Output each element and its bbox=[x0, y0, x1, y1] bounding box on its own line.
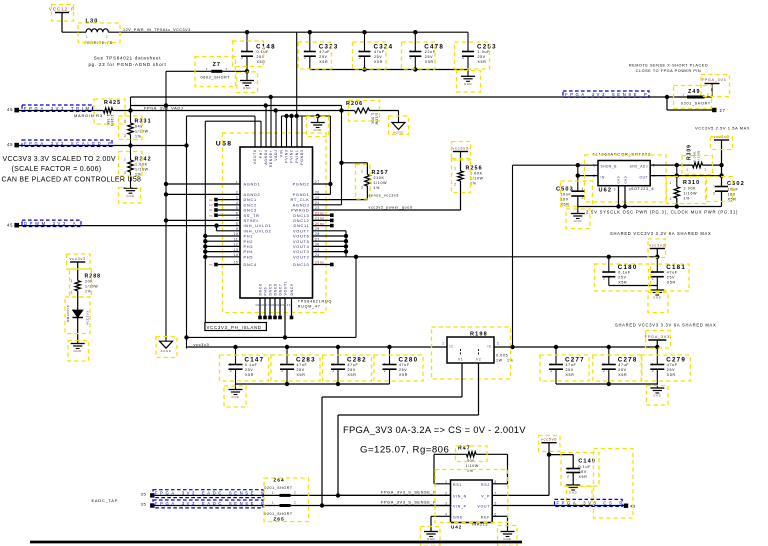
svg-text:GND: GND bbox=[653, 296, 662, 300]
svg-text:0.1uF: 0.1uF bbox=[257, 50, 270, 54]
svg-text:27: 27 bbox=[720, 108, 726, 113]
svg-text:2: 2 bbox=[71, 291, 73, 295]
svg-text:1: 1 bbox=[550, 362, 552, 366]
svg-text:0.1uF: 0.1uF bbox=[579, 465, 592, 469]
svg-text:25V: 25V bbox=[618, 368, 626, 372]
svg-text:GND: GND bbox=[126, 194, 135, 198]
svg-text:2: 2 bbox=[106, 34, 108, 38]
svg-text:CAN BE PLACED AT CONTROLLER U5: CAN BE PLACED AT CONTROLLER U58 bbox=[2, 177, 142, 184]
svg-text:22uF: 22uF bbox=[425, 50, 436, 54]
svg-text:PGND2: PGND2 bbox=[293, 182, 310, 187]
svg-text:RS1: RS1 bbox=[453, 483, 462, 487]
svg-text:47uF: 47uF bbox=[399, 363, 410, 367]
svg-text:OUT: OUT bbox=[640, 176, 648, 180]
svg-text:X5R: X5R bbox=[579, 475, 588, 479]
svg-text:VCC3V3_PH_ISLAND: VCC3V3_PH_ISLAND bbox=[207, 325, 262, 330]
svg-text:X5R: X5R bbox=[667, 373, 676, 377]
svg-text:25V: 25V bbox=[319, 55, 327, 59]
svg-text:1: 1 bbox=[713, 185, 715, 189]
svg-text:0201_SHORT: 0201_SHORT bbox=[264, 512, 292, 516]
svg-text:2: 2 bbox=[230, 369, 232, 373]
svg-text:nc: nc bbox=[209, 203, 213, 207]
svg-text:FPGA_3V3_S_SENSE_N: FPGA_3V3_S_SENSE_N bbox=[381, 490, 437, 495]
svg-text:VCC3V3: VCC3V3 bbox=[86, 311, 90, 325]
svg-text:1: 1 bbox=[332, 362, 334, 366]
svg-text:RUQM_47: RUQM_47 bbox=[298, 305, 321, 309]
svg-text:FPGA_3V3_TRIM: FPGA_3V3_TRIM bbox=[24, 106, 92, 111]
svg-text:2: 2 bbox=[226, 67, 228, 71]
svg-text:1: 1 bbox=[206, 67, 208, 71]
svg-text:47uF: 47uF bbox=[667, 363, 678, 367]
svg-text:3: 3 bbox=[614, 188, 616, 192]
svg-text:VCC3V3 3.3V SCALED TO 2.00V: VCC3V3 3.3V SCALED TO 2.00V bbox=[3, 156, 116, 163]
svg-text:VCC12_P: VCC12_P bbox=[49, 6, 75, 11]
svg-text:2: 2 bbox=[304, 56, 306, 60]
svg-text:2: 2 bbox=[567, 474, 569, 478]
svg-text:0201_SHORT: 0201_SHORT bbox=[264, 486, 292, 490]
svg-text:3: 3 bbox=[445, 502, 447, 506]
svg-text:2.5V SYSCLK OSC PWR (PG.3), CL: 2.5V SYSCLK OSC PWR (PG.3), CLOCK MUX PW… bbox=[586, 209, 738, 214]
svg-text:25V: 25V bbox=[245, 368, 253, 372]
svg-text:2: 2 bbox=[707, 93, 709, 97]
svg-text:U58: U58 bbox=[216, 141, 233, 148]
svg-text:VOUT: VOUT bbox=[477, 505, 490, 509]
svg-text:GND: GND bbox=[74, 349, 83, 353]
svg-text:2.00K: 2.00K bbox=[684, 187, 697, 191]
svg-text:25V: 25V bbox=[297, 368, 305, 372]
svg-text:X5R: X5R bbox=[566, 373, 575, 377]
svg-text:GND: GND bbox=[624, 176, 628, 184]
svg-text:1/16W: 1/16W bbox=[374, 113, 378, 125]
svg-text:SHDN_B: SHDN_B bbox=[601, 164, 617, 168]
svg-text:35: 35 bbox=[141, 501, 147, 506]
svg-text:U62: U62 bbox=[599, 188, 613, 194]
svg-text:X5R: X5R bbox=[348, 373, 357, 377]
svg-text:47uF: 47uF bbox=[319, 50, 330, 54]
svg-text:GND: GND bbox=[231, 395, 240, 399]
svg-text:2: 2 bbox=[294, 491, 296, 495]
svg-text:VCC2V5 2.5V 1.5A MAX: VCC2V5 2.5V 1.5A MAX bbox=[695, 126, 750, 131]
svg-text:1: 1 bbox=[124, 158, 126, 162]
svg-text:SHARED VCC3V3 3.3V 6A SHARED M: SHARED VCC3V3 3.3V 6A SHARED MAX bbox=[615, 323, 717, 328]
svg-text:16V: 16V bbox=[728, 192, 736, 196]
svg-text:1: 1 bbox=[567, 467, 569, 471]
svg-text:GND: GND bbox=[464, 82, 473, 86]
svg-text:PVIN3: PVIN3 bbox=[285, 150, 289, 163]
svg-text:VIN_N: VIN_N bbox=[453, 494, 467, 498]
svg-text:nc: nc bbox=[209, 208, 213, 212]
svg-text:21: 21 bbox=[287, 303, 291, 307]
svg-text:25V: 25V bbox=[348, 368, 356, 372]
svg-text:X5R: X5R bbox=[618, 373, 627, 377]
svg-text:19: 19 bbox=[275, 303, 279, 307]
svg-text:R198: R198 bbox=[470, 332, 488, 338]
svg-text:25V: 25V bbox=[478, 55, 486, 59]
svg-text:2: 2 bbox=[332, 369, 334, 373]
svg-text:1: 1 bbox=[359, 49, 361, 53]
svg-text:2: 2 bbox=[410, 56, 412, 60]
svg-text:1: 1 bbox=[272, 501, 274, 505]
svg-text:2: 2 bbox=[582, 196, 584, 200]
svg-text:GND: GND bbox=[503, 537, 512, 541]
svg-text:SHARED VCC3V3 3.3V 6A SHARED M: SHARED VCC3V3 3.3V 6A SHARED MAX bbox=[610, 231, 712, 236]
svg-text:I1: I1 bbox=[450, 345, 454, 349]
svg-text:V2: V2 bbox=[476, 358, 481, 362]
svg-text:1.00K: 1.00K bbox=[135, 162, 148, 166]
svg-text:0.005: 0.005 bbox=[496, 354, 508, 358]
svg-text:1/10W: 1/10W bbox=[470, 177, 484, 181]
svg-text:47uF: 47uF bbox=[297, 363, 308, 367]
svg-text:1: 1 bbox=[410, 49, 412, 53]
svg-text:1: 1 bbox=[670, 181, 672, 185]
svg-text:MARGIN R3: MARGIN R3 bbox=[74, 113, 103, 118]
svg-text:12V_PWR_IN_TPS84x_VCC3V3: 12V_PWR_IN_TPS84x_VCC3V3 bbox=[123, 28, 191, 32]
svg-text:X5R: X5R bbox=[618, 280, 627, 284]
svg-text:R331: R331 bbox=[135, 118, 152, 124]
svg-text:nc: nc bbox=[209, 198, 213, 202]
svg-text:vcc3v3: vcc3v3 bbox=[452, 145, 468, 150]
svg-text:1%: 1% bbox=[85, 290, 91, 294]
svg-text:VOUT1: VOUT1 bbox=[283, 281, 287, 296]
svg-text:1%: 1% bbox=[684, 197, 691, 201]
svg-text:2: 2 bbox=[454, 183, 456, 187]
svg-text:pg. 23 for PGND-AGND short: pg. 23 for PGND-AGND short bbox=[88, 62, 166, 67]
svg-text:2: 2 bbox=[361, 186, 363, 190]
svg-text:2: 2 bbox=[550, 369, 552, 373]
svg-text:1: 1 bbox=[652, 270, 654, 274]
svg-text:2: 2 bbox=[359, 56, 361, 60]
svg-text:2: 2 bbox=[281, 369, 283, 373]
svg-text:1.00K: 1.00K bbox=[470, 172, 483, 176]
svg-text:FPGA_3V3_S_SENSE_P: FPGA_3V3_S_SENSE_P bbox=[381, 500, 436, 505]
svg-text:1: 1 bbox=[272, 491, 274, 495]
svg-text:V_P: V_P bbox=[481, 494, 490, 498]
svg-text:X5R: X5R bbox=[478, 60, 487, 64]
svg-text:1/16W: 1/16W bbox=[110, 115, 114, 127]
svg-text:2: 2 bbox=[603, 369, 605, 373]
svg-text:FPGA_3V3_SENSE_P: FPGA_3V3_SENSE_P bbox=[565, 92, 649, 97]
svg-text:1: 1 bbox=[682, 93, 684, 97]
svg-text:sense_vcc3v3: sense_vcc3v3 bbox=[369, 194, 400, 198]
svg-text:DNC9: DNC9 bbox=[290, 283, 294, 295]
svg-text:Z7: Z7 bbox=[213, 62, 221, 68]
svg-text:SNS_ADJ: SNS_ADJ bbox=[630, 164, 648, 168]
svg-text:47uF: 47uF bbox=[667, 270, 678, 274]
svg-text:X5R: X5R bbox=[399, 373, 408, 377]
svg-text:1%: 1% bbox=[135, 135, 142, 139]
svg-text:2: 2 bbox=[497, 342, 499, 346]
svg-text:DNC6: DNC6 bbox=[273, 283, 277, 295]
svg-text:X5R: X5R bbox=[245, 373, 254, 377]
svg-text:nc: nc bbox=[209, 213, 213, 217]
svg-text:GND: GND bbox=[653, 394, 662, 398]
svg-text:2: 2 bbox=[384, 369, 386, 373]
svg-text:1W: 1W bbox=[496, 359, 503, 363]
svg-text:0201_SHORT: 0201_SHORT bbox=[681, 102, 711, 106]
svg-text:X5R: X5R bbox=[561, 202, 570, 206]
svg-text:1/16W: 1/16W bbox=[684, 192, 698, 196]
svg-text:20: 20 bbox=[280, 303, 284, 307]
svg-text:2: 2 bbox=[462, 56, 464, 60]
svg-text:1: 1 bbox=[686, 168, 688, 172]
svg-text:1.00K: 1.00K bbox=[370, 113, 374, 125]
svg-text:1: 1 bbox=[71, 279, 73, 283]
svg-text:45: 45 bbox=[7, 107, 13, 112]
svg-text:vcc3v3: vcc3v3 bbox=[194, 342, 210, 347]
svg-text:2: 2 bbox=[603, 277, 605, 281]
svg-text:(SCALE FACTOR = 0.606): (SCALE FACTOR = 0.606) bbox=[12, 166, 102, 173]
svg-text:2: 2 bbox=[670, 197, 672, 201]
svg-text:PH5: PH5 bbox=[244, 254, 254, 259]
svg-text:GND: GND bbox=[617, 176, 621, 184]
svg-text:1: 1 bbox=[281, 362, 283, 366]
svg-text:IN: IN bbox=[601, 176, 605, 180]
svg-text:47uF: 47uF bbox=[618, 363, 629, 367]
svg-text:See TPS84021 datasheet: See TPS84021 datasheet bbox=[94, 56, 162, 61]
svg-text:47uF: 47uF bbox=[374, 50, 385, 54]
svg-text:V1: V1 bbox=[458, 358, 463, 362]
svg-text:MM3Z6V8: MM3Z6V8 bbox=[66, 305, 70, 322]
svg-text:2: 2 bbox=[705, 168, 707, 172]
svg-text:PVIN1: PVIN1 bbox=[295, 150, 299, 163]
svg-text:2: 2 bbox=[445, 492, 447, 496]
svg-text:1: 1 bbox=[361, 170, 363, 174]
svg-text:PH7: PH7 bbox=[259, 150, 263, 159]
svg-text:1: 1 bbox=[124, 120, 126, 124]
svg-text:16: 16 bbox=[260, 303, 264, 307]
svg-text:1: 1 bbox=[582, 187, 584, 191]
svg-text:2: 2 bbox=[124, 171, 126, 175]
svg-text:35: 35 bbox=[141, 491, 147, 496]
svg-text:18: 18 bbox=[270, 303, 274, 307]
svg-text:2: 2 bbox=[241, 56, 243, 60]
svg-text:DNC4: DNC4 bbox=[244, 262, 258, 267]
svg-text:X5R: X5R bbox=[425, 60, 434, 64]
svg-text:2: 2 bbox=[124, 134, 126, 138]
svg-text:1: 1 bbox=[86, 34, 88, 38]
svg-text:EADC_TAP: EADC_TAP bbox=[92, 498, 119, 503]
svg-text:10uF: 10uF bbox=[561, 192, 572, 196]
svg-text:R425: R425 bbox=[104, 100, 121, 106]
svg-text:AGND1: AGND1 bbox=[244, 182, 261, 187]
svg-text:25V: 25V bbox=[667, 368, 675, 372]
svg-text:1: 1 bbox=[593, 164, 595, 168]
svg-text:RS2: RS2 bbox=[481, 483, 490, 487]
svg-text:GND: GND bbox=[569, 491, 578, 495]
svg-text:1: 1 bbox=[442, 342, 444, 346]
svg-text:vcc5v0: vcc5v0 bbox=[541, 437, 557, 442]
svg-text:AGND: AGND bbox=[161, 349, 172, 353]
svg-text:FPGA_3V3: FPGA_3V3 bbox=[645, 334, 670, 339]
svg-text:1: 1 bbox=[230, 362, 232, 366]
svg-text:VOUT2: VOUT2 bbox=[293, 254, 309, 259]
svg-text:DNC5: DNC5 bbox=[268, 283, 272, 295]
svg-text:vcc3v3: vcc3v3 bbox=[649, 242, 665, 247]
svg-text:DNC8: DNC8 bbox=[258, 283, 262, 295]
svg-text:GND: GND bbox=[453, 515, 463, 519]
svg-text:X5R: X5R bbox=[374, 60, 383, 64]
svg-text:VOUT8: VOUT8 bbox=[253, 150, 257, 165]
svg-text:0.1uF: 0.1uF bbox=[618, 270, 631, 274]
svg-text:17: 17 bbox=[265, 303, 269, 307]
svg-text:0603_SHORT: 0603_SHORT bbox=[201, 75, 231, 79]
svg-text:45: 45 bbox=[7, 222, 13, 227]
svg-text:TPS84621RUQ: TPS84621RUQ bbox=[298, 299, 332, 303]
svg-text:25V: 25V bbox=[374, 55, 382, 59]
svg-text:REF: REF bbox=[481, 515, 490, 519]
svg-text:FPGA_3V3_VADJ: FPGA_3V3_VADJ bbox=[144, 105, 183, 110]
svg-text:1: 1 bbox=[652, 362, 654, 366]
svg-text:VIN: VIN bbox=[280, 150, 284, 158]
svg-text:1: 1 bbox=[603, 270, 605, 274]
svg-text:1: 1 bbox=[241, 49, 243, 53]
svg-text:25V: 25V bbox=[618, 275, 626, 279]
svg-text:25V: 25V bbox=[425, 55, 433, 59]
svg-text:47uF: 47uF bbox=[566, 363, 577, 367]
svg-text:2: 2 bbox=[713, 192, 715, 196]
svg-text:R309: R309 bbox=[686, 144, 692, 160]
svg-text:0.1uF: 0.1uF bbox=[245, 363, 258, 367]
svg-text:PH6: PH6 bbox=[263, 287, 267, 296]
svg-text:DNC10: DNC10 bbox=[293, 262, 309, 267]
svg-text:1/10W: 1/10W bbox=[374, 181, 388, 185]
svg-text:vcc3v3_power_good: vcc3v3_power_good bbox=[369, 205, 413, 209]
svg-text:2: 2 bbox=[652, 277, 654, 281]
svg-text:1: 1 bbox=[304, 49, 306, 53]
svg-text:25V: 25V bbox=[579, 470, 587, 474]
svg-text:1: 1 bbox=[603, 362, 605, 366]
svg-text:210K: 210K bbox=[374, 176, 385, 180]
svg-text:47uF: 47uF bbox=[348, 363, 359, 367]
svg-text:1: 1 bbox=[462, 49, 464, 53]
svg-text:25V: 25V bbox=[566, 368, 574, 372]
svg-text:nc: nc bbox=[209, 263, 213, 267]
svg-text:2: 2 bbox=[593, 174, 595, 178]
svg-text:X5R: X5R bbox=[667, 280, 676, 284]
svg-text:1: 1 bbox=[384, 362, 386, 366]
svg-text:CLOSE TO FPGA POWER PIN: CLOSE TO FPGA POWER PIN bbox=[636, 69, 702, 73]
svg-text:VADJ: VADJ bbox=[274, 150, 278, 161]
svg-text:25V: 25V bbox=[399, 368, 407, 372]
svg-text:X5R: X5R bbox=[319, 60, 328, 64]
svg-text:PGND3: PGND3 bbox=[300, 150, 304, 165]
svg-text:GND: GND bbox=[314, 128, 323, 132]
svg-text:X5R: X5R bbox=[297, 373, 306, 377]
svg-text:45: 45 bbox=[7, 142, 13, 147]
svg-text:I2: I2 bbox=[487, 345, 491, 349]
svg-text:SOT223_6: SOT223_6 bbox=[631, 187, 654, 191]
svg-text:16V: 16V bbox=[561, 197, 569, 201]
svg-text:1: 1 bbox=[454, 167, 456, 171]
svg-text:FPGA_3V3 0A-3.2A => CS = 0V -: FPGA_3V3 0A-3.2A => CS = 0V - 2.001V bbox=[343, 424, 526, 435]
svg-text:GND: GND bbox=[574, 219, 583, 223]
svg-text:2: 2 bbox=[294, 501, 296, 505]
svg-text:R310: R310 bbox=[683, 180, 700, 186]
svg-text:FPGA_3V3: FPGA_3V3 bbox=[702, 78, 727, 82]
svg-text:GND: GND bbox=[427, 537, 436, 541]
svg-text:vcc3v3: vcc3v3 bbox=[70, 256, 86, 261]
svg-text:1/10W: 1/10W bbox=[466, 464, 479, 468]
svg-text:FPGA_3V3_CS_P: FPGA_3V3_CS_P bbox=[557, 501, 625, 506]
svg-text:GND: GND bbox=[243, 86, 252, 90]
svg-text:SENSE+: SENSE+ bbox=[269, 150, 273, 168]
svg-text:1.0uF: 1.0uF bbox=[478, 50, 491, 54]
svg-text:2: 2 bbox=[652, 369, 654, 373]
svg-text:U42: U42 bbox=[451, 524, 462, 529]
svg-text:25V: 25V bbox=[667, 275, 675, 279]
svg-text:Z49: Z49 bbox=[688, 89, 701, 95]
svg-text:PVIN2: PVIN2 bbox=[290, 150, 294, 163]
svg-text:VIN_P: VIN_P bbox=[453, 505, 467, 509]
svg-text:AGND4: AGND4 bbox=[264, 150, 268, 165]
svg-text:15: 15 bbox=[255, 303, 259, 307]
svg-text:DNC7: DNC7 bbox=[278, 283, 282, 295]
svg-text:C502: C502 bbox=[727, 181, 745, 187]
svg-text:REMOTE SENSE X-SHORT PLACED: REMOTE SENSE X-SHORT PLACED bbox=[629, 64, 708, 68]
svg-text:1%: 1% bbox=[374, 186, 381, 190]
